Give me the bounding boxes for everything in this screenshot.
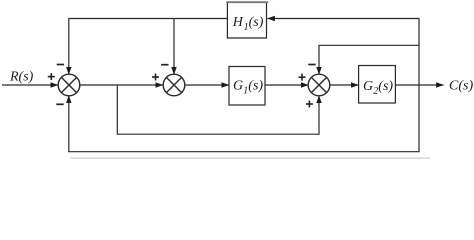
- wire S3 to block G2: [330, 84, 359, 86]
- block G1(s): [229, 67, 265, 106]
- svg-text:G: G: [363, 79, 373, 94]
- svg-text:(s): (s): [248, 79, 263, 94]
- sign - at S1 top input: [57, 64, 64, 66]
- summing junction S1: [58, 74, 80, 96]
- wire feedforward takeoff x117 into S3 bottom: [117, 85, 319, 134]
- svg-text:(s): (s): [249, 15, 264, 30]
- sign - at S1 bottom input: [56, 103, 63, 105]
- wire S2 to block G1: [185, 84, 229, 86]
- wire H1 output to S1 and S2 top (node at x=174): [69, 19, 228, 75]
- sign + at S2 left input: [152, 74, 159, 81]
- sign + at S3 left input: [299, 74, 306, 81]
- svg-text:R(s): R(s): [9, 70, 34, 85]
- sign - at S3 top input: [308, 64, 315, 66]
- wire S1 to summing junction S2: [80, 84, 163, 86]
- wire takeoff after G2 up to H1 input: [268, 19, 420, 86]
- wire outer feedback from takeoff x419 into S1 bottom: [69, 85, 419, 152]
- svg-text:G: G: [233, 79, 243, 94]
- svg-text:C(s): C(s): [449, 78, 473, 93]
- sign + at S1 left input: [48, 73, 55, 80]
- block H1(s): [226, 2, 268, 38]
- svg-text:H: H: [232, 15, 244, 30]
- svg-text:(s): (s): [378, 79, 393, 94]
- wire G2 to output C(s): [395, 84, 443, 86]
- wire G1 to summing junction S3: [265, 84, 308, 86]
- sign - at S2 top input: [161, 64, 168, 66]
- wire feedback from takeoff x419 into S3 top: [319, 45, 419, 74]
- scan artifact smudge at bottom: [70, 157, 430, 159]
- block G2(s): [359, 66, 396, 104]
- wire R(s) input into summing junction S1: [2, 84, 58, 86]
- sign + at S3 bottom input: [306, 101, 313, 108]
- wire branch down into S2 top: [173, 19, 175, 75]
- summing junction S3: [308, 74, 330, 96]
- summing junction S2: [163, 74, 185, 96]
